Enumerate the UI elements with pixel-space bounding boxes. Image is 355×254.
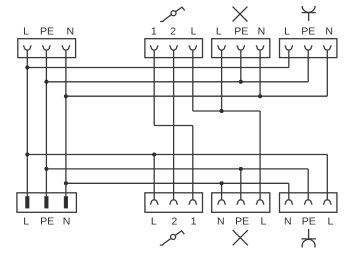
terminal block X4 (top socket connector) <box>280 39 337 58</box>
svg-text:L: L <box>260 216 266 228</box>
junction PE return / X7-PE <box>239 167 243 171</box>
terminal fork X2-L <box>189 46 196 58</box>
svg-text:L: L <box>23 26 29 38</box>
terminal fork X4-PE <box>305 46 312 58</box>
terminal block X1 (top supply connector) <box>18 39 76 58</box>
wire X1-PE to X5-PE (net PE vertical) <box>45 58 47 197</box>
junction L return / X1-L vertical <box>25 153 29 157</box>
plug contact X5-L (filled) <box>25 196 29 208</box>
socket outlet symbol (above top socket connector) <box>302 6 316 21</box>
terminal block X7 (bottom lamp connector) <box>212 193 270 213</box>
terminal fork X6-2 <box>170 193 177 204</box>
svg-text:1: 1 <box>191 216 197 228</box>
terminal fork X1-N <box>62 46 69 58</box>
terminal fork X6-L <box>151 193 158 204</box>
terminal block X8 (bottom socket connector) <box>280 193 337 213</box>
wire L return bus (bottom) <box>27 154 327 156</box>
terminal fork X8-L <box>324 193 331 204</box>
terminal fork X4-L <box>285 46 292 58</box>
lamp outlet symbol X (above top lamp connector) <box>233 7 248 22</box>
terminal block X2 (top switch connector) <box>145 39 203 58</box>
wire N bus (top) <box>66 95 327 97</box>
svg-text:N: N <box>284 216 292 228</box>
wire N return bus (bottom) <box>66 182 289 184</box>
terminal fork X7-N <box>218 193 225 204</box>
wire X7-PE up to PE return bus <box>240 169 242 193</box>
terminal fork X3-PE <box>237 46 244 58</box>
terminal fork X7-PE <box>237 193 244 204</box>
wire X4-L down to L bus end <box>288 58 290 68</box>
terminal fork X2-2 <box>170 46 177 58</box>
wire L return bus end down to X8-L <box>326 155 328 193</box>
wire X4-PE down to PE bus end <box>307 58 309 82</box>
svg-text:N: N <box>217 216 225 228</box>
wire net-1 link X2-1 to X6-1 <box>154 125 193 127</box>
svg-text:N: N <box>325 26 333 38</box>
svg-text:2: 2 <box>171 216 177 228</box>
junction N return / X1-N vertical <box>64 181 68 185</box>
terminal fork X8-PE <box>305 193 312 204</box>
junction N bus / X3-N <box>258 94 262 98</box>
svg-text:2: 2 <box>170 26 176 38</box>
wire L bus (top) <box>27 67 289 69</box>
wire X6-L up to L return bus <box>153 155 155 193</box>
terminal block X3 (top lamp connector) <box>212 39 270 58</box>
wire PE return bus (bottom) <box>46 168 308 170</box>
wire N return bus end down to X8-N <box>288 183 290 193</box>
svg-text:L: L <box>191 26 197 38</box>
junction L bus / X1-L <box>25 66 29 70</box>
wire link down to X6-1 <box>192 126 194 193</box>
junction L return / X6-L <box>152 153 156 157</box>
junction N bus / X1-N <box>64 94 68 98</box>
wire PE bus (top) <box>46 81 308 83</box>
junction PE bus / X3-PE <box>239 80 243 84</box>
terminal fork X6-1 <box>189 193 196 204</box>
switch symbol S1' (below bottom switch connector) <box>160 231 185 245</box>
svg-text:L: L <box>284 26 290 38</box>
junction PE return / X1-PE vertical <box>44 167 48 171</box>
wire X1-L to X5-L (net L vertical) <box>26 58 28 197</box>
wire X1-N to X5-N (net N vertical) <box>65 58 67 197</box>
terminal fork X8-N <box>285 193 292 204</box>
wire X7-N up to N return bus <box>221 183 223 193</box>
terminal block X5 (bottom supply feed-through connector) <box>17 193 77 213</box>
svg-text:L: L <box>151 216 157 228</box>
terminal fork X2-1 <box>151 46 158 58</box>
svg-text:N: N <box>63 216 71 228</box>
svg-text:N: N <box>67 26 75 38</box>
svg-text:N: N <box>258 26 266 38</box>
wire X2-L down to switched-L link <box>192 58 194 111</box>
wire PE return bus end down to X8-PE <box>307 169 309 193</box>
plug contact X5-N (filled) <box>64 196 68 208</box>
switch symbol S1 (above top switch connector) <box>160 7 185 21</box>
svg-text:1: 1 <box>151 26 157 38</box>
svg-text:L: L <box>327 216 333 228</box>
terminal block X6 (bottom switch connector) <box>145 193 203 213</box>
wire X4-N down to N bus end <box>326 58 328 97</box>
svg-text:PE: PE <box>235 216 249 228</box>
plug contact X5-PE (filled) <box>44 196 48 208</box>
terminal fork X3-N <box>256 46 263 58</box>
terminal fork X7-L <box>256 193 263 204</box>
lamp outlet symbol X2 (below bottom lamp connector) <box>233 230 248 245</box>
svg-text:L: L <box>23 216 29 228</box>
wire X3-PE down to PE bus <box>240 58 242 82</box>
terminal fork X4-N <box>324 46 331 58</box>
wire X3-N down to N bus <box>259 58 261 97</box>
terminal fork X1-PE <box>43 46 50 58</box>
junction switched-L link / X3-L <box>220 109 224 113</box>
socket outlet symbol (below bottom socket connector) <box>301 229 316 248</box>
wire X2-1 down to link <box>153 58 155 126</box>
svg-text:PE: PE <box>301 26 315 38</box>
svg-text:L: L <box>216 26 222 38</box>
svg-text:PE: PE <box>234 26 248 38</box>
junction PE bus / X1-PE <box>44 80 48 84</box>
svg-text:PE: PE <box>40 26 54 38</box>
terminal fork X3-L <box>218 46 225 58</box>
terminal fork X1-L <box>24 46 31 58</box>
junction N return / X7-N <box>220 181 224 185</box>
svg-text:PE: PE <box>302 216 316 228</box>
wire X3-L up from switched-L link <box>221 58 223 111</box>
wire switched-L link down to X7-L <box>259 111 261 193</box>
svg-text:PE: PE <box>40 216 54 228</box>
wire X2-2 to X6-2 (net 2 vertical) <box>173 58 175 193</box>
wire switched-L link X2-L to X7-L <box>193 110 260 112</box>
